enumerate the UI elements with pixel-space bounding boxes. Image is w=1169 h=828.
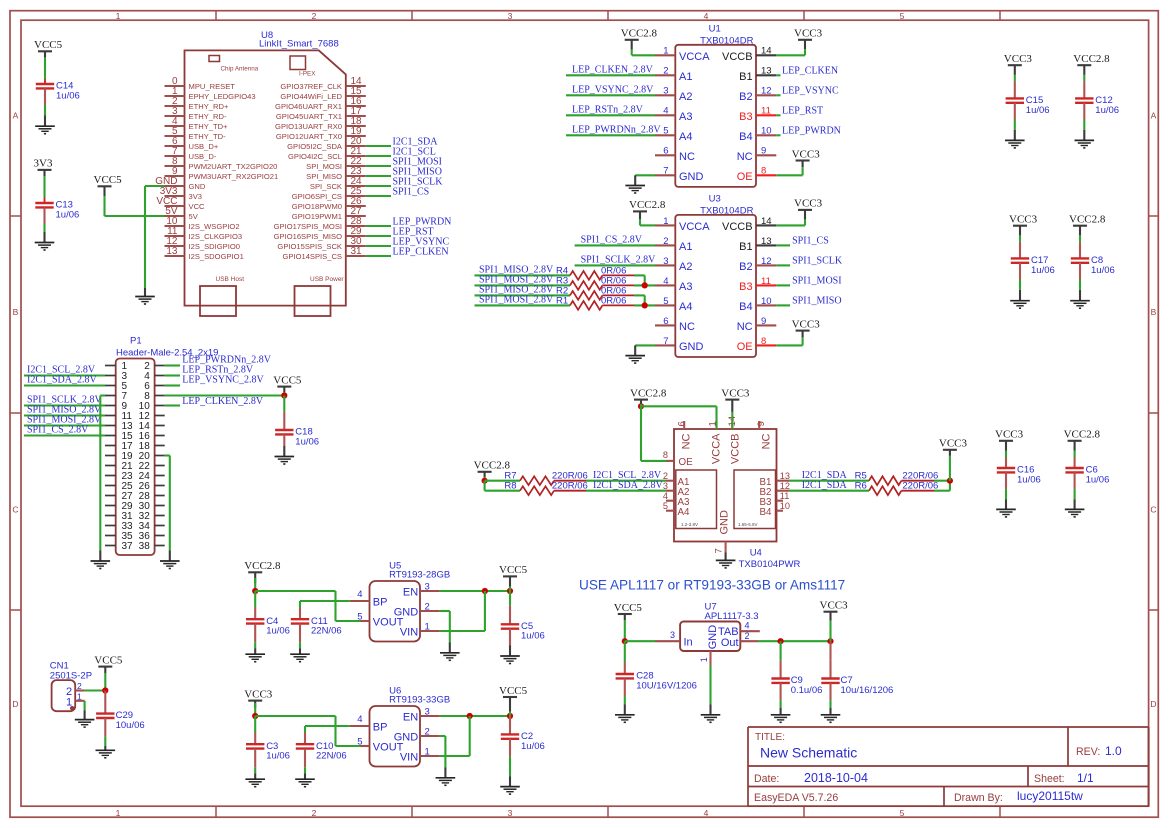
svg-text:VCCA: VCCA [679, 221, 710, 233]
svg-text:VCCB: VCCB [730, 434, 742, 465]
svg-text:GPIO19PWM1: GPIO19PWM1 [292, 212, 342, 221]
svg-text:GPIO45UART_TX1: GPIO45UART_TX1 [276, 112, 342, 121]
svg-text:VCC5: VCC5 [499, 564, 528, 576]
svg-text:B: B [1151, 307, 1157, 317]
svg-text:4: 4 [357, 714, 362, 725]
svg-text:10: 10 [780, 501, 790, 511]
svg-text:13: 13 [761, 66, 772, 77]
svg-text:USB_D-: USB_D- [189, 152, 217, 161]
svg-text:1u/06: 1u/06 [56, 209, 80, 220]
svg-text:2: 2 [425, 601, 430, 612]
svg-text:5: 5 [900, 808, 905, 818]
svg-text:4: 4 [357, 589, 362, 600]
svg-text:4: 4 [704, 11, 709, 21]
svg-text:1.2-3.8V: 1.2-3.8V [681, 522, 698, 527]
svg-text:SPI1_CS: SPI1_CS [393, 187, 430, 198]
svg-text:3: 3 [663, 256, 668, 267]
svg-text:USB Power: USB Power [310, 276, 344, 283]
svg-text:USE APL1117 or RT9193-33GB or: USE APL1117 or RT9193-33GB or Ams1117 [579, 577, 845, 592]
svg-text:6: 6 [663, 146, 668, 157]
svg-text:1u/06: 1u/06 [1017, 474, 1041, 485]
svg-text:13: 13 [761, 236, 772, 247]
svg-text:7: 7 [663, 166, 668, 177]
svg-text:GPIO5I2C_SDA: GPIO5I2C_SDA [287, 142, 343, 151]
svg-text:11: 11 [761, 276, 771, 287]
svg-text:VCC5: VCC5 [273, 374, 302, 386]
svg-text:LEP_RSTn_2.8V: LEP_RSTn_2.8V [572, 105, 644, 116]
svg-text:OE: OE [737, 341, 753, 353]
svg-text:2: 2 [663, 236, 668, 247]
svg-text:U3: U3 [709, 194, 721, 205]
svg-text:VCC3: VCC3 [792, 148, 821, 160]
svg-text:9: 9 [761, 146, 766, 157]
svg-text:10: 10 [761, 296, 772, 307]
svg-text:SPI1_SCLK: SPI1_SCLK [792, 256, 843, 267]
svg-text:9: 9 [756, 421, 767, 426]
svg-text:1: 1 [425, 621, 430, 632]
svg-text:1u/06: 1u/06 [1086, 474, 1110, 485]
svg-text:9: 9 [761, 316, 766, 327]
svg-text:GPIO4I2C_SCL: GPIO4I2C_SCL [288, 152, 342, 161]
svg-text:VCCB: VCCB [722, 51, 753, 63]
svg-text:A2: A2 [679, 261, 692, 273]
svg-text:2: 2 [312, 11, 317, 21]
svg-text:1u/06: 1u/06 [1095, 105, 1119, 116]
svg-text:BP: BP [373, 597, 388, 609]
svg-text:REV:: REV: [1076, 746, 1100, 758]
svg-text:1u/06: 1u/06 [521, 741, 545, 752]
svg-text:1u/06: 1u/06 [56, 90, 80, 101]
svg-text:A3: A3 [679, 111, 692, 123]
svg-text:OE: OE [679, 457, 694, 468]
svg-text:PWM3UART_RX2GPIO21: PWM3UART_RX2GPIO21 [189, 172, 279, 181]
svg-text:NC: NC [679, 321, 695, 333]
svg-text:TXB0104PWR: TXB0104PWR [739, 559, 801, 570]
svg-text:5: 5 [663, 501, 668, 511]
svg-text:4: 4 [704, 808, 709, 818]
svg-text:C: C [1150, 504, 1156, 514]
svg-text:5: 5 [663, 296, 668, 307]
svg-text:VCC: VCC [189, 202, 206, 211]
svg-text:1: 1 [66, 697, 72, 709]
svg-text:14: 14 [761, 216, 772, 227]
svg-text:5: 5 [663, 126, 668, 137]
svg-text:VCC3: VCC3 [792, 318, 821, 330]
svg-text:SPI1_SCLK_2.8V: SPI1_SCLK_2.8V [581, 255, 657, 266]
svg-text:13: 13 [166, 246, 178, 257]
svg-text:I2C1_SDA: I2C1_SDA [802, 480, 848, 491]
svg-text:GND: GND [679, 341, 704, 353]
svg-text:I2S_SDIGPIO0: I2S_SDIGPIO0 [189, 242, 241, 251]
svg-text:VCC2.8: VCC2.8 [244, 560, 281, 572]
svg-text:OE: OE [737, 171, 753, 183]
svg-text:Sheet:: Sheet: [1034, 773, 1065, 785]
svg-text:1: 1 [425, 746, 430, 757]
svg-text:R1: R1 [556, 296, 568, 307]
svg-text:VCC3: VCC3 [794, 28, 823, 40]
svg-text:2: 2 [77, 681, 82, 691]
svg-text:GPIO44WiFi_LED: GPIO44WiFi_LED [280, 92, 342, 101]
svg-text:10: 10 [761, 126, 772, 137]
svg-text:VCC2.8: VCC2.8 [629, 199, 666, 211]
svg-text:USB_D+: USB_D+ [189, 142, 219, 151]
svg-text:1u/06: 1u/06 [266, 751, 290, 762]
svg-text:GND: GND [679, 171, 704, 183]
svg-text:4: 4 [663, 276, 668, 287]
svg-text:GPIO13UART_RX0: GPIO13UART_RX0 [275, 122, 342, 131]
svg-text:GPIO12UART_TX0: GPIO12UART_TX0 [276, 132, 342, 141]
svg-text:LinkIt_Smart_7688: LinkIt_Smart_7688 [259, 39, 339, 50]
svg-text:10u/06: 10u/06 [116, 720, 145, 731]
svg-text:SPI1_CS_2.8V: SPI1_CS_2.8V [581, 235, 643, 246]
svg-text:4: 4 [745, 621, 750, 631]
svg-text:VCC5: VCC5 [614, 602, 643, 614]
svg-text:VCC3: VCC3 [820, 600, 849, 612]
svg-text:APL1117-3.3: APL1117-3.3 [705, 611, 759, 622]
svg-text:3: 3 [670, 630, 675, 640]
svg-text:GND: GND [189, 182, 206, 191]
svg-text:38: 38 [139, 541, 151, 552]
svg-text:2: 2 [663, 66, 668, 77]
svg-text:7: 7 [663, 336, 668, 347]
svg-text:1u/06: 1u/06 [1091, 265, 1115, 276]
svg-text:NC: NC [737, 151, 753, 163]
svg-text:GND: GND [719, 510, 731, 535]
svg-text:LEP_RST: LEP_RST [782, 106, 823, 117]
svg-text:12: 12 [761, 86, 772, 97]
svg-text:11: 11 [761, 106, 771, 117]
svg-text:USB Host: USB Host [216, 276, 245, 283]
svg-text:Date:: Date: [754, 773, 779, 785]
svg-text:I2S_WSGPIO2: I2S_WSGPIO2 [189, 222, 240, 231]
svg-text:1.65-5.5V: 1.65-5.5V [738, 522, 758, 527]
svg-text:4: 4 [663, 491, 668, 501]
svg-text:VCC3: VCC3 [244, 688, 273, 700]
svg-text:I2C1_SDA_2.8V: I2C1_SDA_2.8V [27, 375, 98, 386]
svg-text:B1: B1 [739, 71, 752, 83]
svg-text:14: 14 [761, 46, 772, 57]
svg-text:LEP_CLKEN_2.8V: LEP_CLKEN_2.8V [572, 65, 654, 76]
svg-text:11: 11 [780, 491, 790, 501]
svg-text:6: 6 [663, 316, 668, 327]
svg-text:1u/06: 1u/06 [521, 631, 545, 642]
svg-text:Drawn By:: Drawn By: [954, 792, 1003, 804]
svg-text:GPIO15SPIS_SCK: GPIO15SPIS_SCK [277, 242, 342, 251]
svg-text:5V: 5V [189, 212, 199, 221]
svg-text:1: 1 [663, 216, 668, 227]
svg-text:B2: B2 [739, 261, 752, 273]
svg-text:VCC2.8: VCC2.8 [1069, 214, 1106, 226]
svg-text:1u/06: 1u/06 [295, 436, 319, 447]
svg-text:10u/16/1206: 10u/16/1206 [841, 685, 894, 696]
svg-text:VOUT: VOUT [373, 617, 404, 629]
svg-text:RT9193-28GB: RT9193-28GB [389, 570, 450, 581]
svg-text:31: 31 [351, 246, 363, 257]
svg-text:In: In [684, 637, 693, 649]
svg-text:2: 2 [312, 808, 317, 818]
svg-text:B4: B4 [739, 301, 752, 313]
svg-text:37: 37 [122, 541, 134, 552]
svg-text:D: D [1150, 699, 1156, 709]
svg-text:8: 8 [663, 450, 668, 460]
svg-text:NC: NC [737, 321, 753, 333]
svg-text:A3: A3 [679, 281, 692, 293]
svg-text:SPI1_MOSI_2.8V: SPI1_MOSI_2.8V [479, 295, 554, 306]
svg-text:VCCA: VCCA [679, 51, 710, 63]
svg-text:1: 1 [663, 46, 668, 57]
svg-text:10U/16V/1206: 10U/16V/1206 [636, 680, 697, 691]
svg-text:ETHY_TD-: ETHY_TD- [189, 132, 227, 141]
svg-text:VCC5: VCC5 [94, 654, 123, 666]
svg-text:R8: R8 [504, 481, 516, 492]
svg-text:LEP_CLKEN_2.8V: LEP_CLKEN_2.8V [182, 396, 264, 407]
svg-text:A1: A1 [679, 241, 692, 253]
svg-text:RT9193-33GB: RT9193-33GB [389, 695, 450, 706]
svg-text:1/1: 1/1 [1077, 771, 1094, 785]
svg-text:1: 1 [77, 692, 82, 702]
svg-text:3V3: 3V3 [189, 192, 203, 201]
svg-text:I2C1_SDA_2.8V: I2C1_SDA_2.8V [593, 480, 664, 491]
svg-text:A: A [1151, 110, 1157, 120]
svg-text:VCC5: VCC5 [94, 174, 123, 186]
svg-text:LEP_PWRDNn_2.8V: LEP_PWRDNn_2.8V [572, 125, 661, 136]
svg-text:220R/06: 220R/06 [902, 481, 938, 492]
svg-text:VCC3: VCC3 [1009, 214, 1038, 226]
svg-text:B3: B3 [739, 281, 752, 293]
svg-text:B2: B2 [739, 91, 752, 103]
svg-text:ETHY_RD-: ETHY_RD- [189, 112, 227, 121]
svg-text:NC: NC [681, 433, 693, 449]
svg-text:12: 12 [761, 256, 772, 267]
svg-text:A1: A1 [679, 71, 692, 83]
svg-text:2018-10-04: 2018-10-04 [804, 771, 868, 785]
svg-text:VCC3: VCC3 [1004, 53, 1033, 65]
svg-text:3V3: 3V3 [34, 158, 53, 170]
svg-text:3: 3 [425, 581, 430, 592]
svg-text:VCC2.8: VCC2.8 [1073, 53, 1110, 65]
svg-text:SPI1_CS: SPI1_CS [792, 236, 829, 247]
svg-text:VCCB: VCCB [722, 221, 753, 233]
svg-text:I2S_CLKGPIO3: I2S_CLKGPIO3 [189, 232, 243, 241]
svg-text:2: 2 [663, 471, 668, 481]
svg-text:A4: A4 [679, 301, 692, 313]
svg-text:3: 3 [663, 86, 668, 97]
svg-text:SPI_SCK: SPI_SCK [310, 182, 342, 191]
svg-text:6: 6 [677, 421, 688, 426]
svg-text:220R/06: 220R/06 [552, 481, 588, 492]
svg-text:3: 3 [425, 706, 430, 717]
svg-text:2: 2 [745, 631, 750, 641]
svg-text:13: 13 [780, 471, 790, 481]
svg-text:LEP_CLKEN: LEP_CLKEN [393, 247, 449, 258]
svg-text:3: 3 [508, 808, 513, 818]
svg-text:1u/06: 1u/06 [1031, 265, 1055, 276]
svg-text:New Schematic: New Schematic [760, 745, 857, 761]
svg-text:LEP_VSYNC_2.8V: LEP_VSYNC_2.8V [182, 375, 264, 386]
svg-text:U4: U4 [750, 548, 762, 559]
svg-text:VCC3: VCC3 [794, 198, 823, 210]
svg-text:VCC2.8: VCC2.8 [621, 28, 658, 40]
svg-text:7: 7 [714, 548, 725, 553]
svg-text:SPI_MOSI: SPI_MOSI [306, 162, 342, 171]
svg-text:EPHY_LEDGPIO43: EPHY_LEDGPIO43 [189, 92, 256, 101]
svg-text:I2S_SDOGPIO1: I2S_SDOGPIO1 [189, 252, 244, 261]
svg-text:VCC3: VCC3 [939, 438, 968, 450]
svg-text:VOUT: VOUT [373, 742, 404, 754]
svg-text:VCC3: VCC3 [995, 429, 1024, 441]
svg-text:EasyEDA V5.7.26: EasyEDA V5.7.26 [754, 792, 838, 804]
svg-text:LEP_VSYNC_2.8V: LEP_VSYNC_2.8V [572, 85, 654, 96]
svg-text:GPIO18PWM0: GPIO18PWM0 [292, 202, 342, 211]
svg-text:EN: EN [403, 587, 418, 599]
svg-text:PWM2UART_TX2GPIO20: PWM2UART_TX2GPIO20 [189, 162, 278, 171]
svg-text:MPU_RESET: MPU_RESET [189, 82, 236, 91]
svg-text:1u/06: 1u/06 [1026, 105, 1050, 116]
svg-text:B4: B4 [739, 131, 752, 143]
svg-text:GPIO17SPIS_MOSI: GPIO17SPIS_MOSI [274, 222, 342, 231]
svg-text:Chip Antenna: Chip Antenna [221, 66, 259, 73]
svg-text:3: 3 [663, 481, 668, 491]
svg-text:GPIO37REF_CLK: GPIO37REF_CLK [280, 82, 342, 91]
svg-text:0.1u/06: 0.1u/06 [791, 685, 823, 696]
svg-text:B: B [13, 307, 19, 317]
svg-text:TITLE:: TITLE: [755, 732, 785, 743]
svg-text:B4: B4 [760, 507, 773, 518]
svg-text:EN: EN [403, 712, 418, 724]
svg-text:4: 4 [663, 106, 668, 117]
svg-text:VCC5: VCC5 [499, 685, 528, 697]
svg-text:VCCA: VCCA [710, 433, 722, 464]
svg-text:GPIO14SPIS_CS: GPIO14SPIS_CS [282, 252, 342, 261]
svg-text:1.0: 1.0 [1105, 744, 1122, 758]
svg-text:BP: BP [373, 722, 388, 734]
svg-text:22N/06: 22N/06 [316, 751, 347, 762]
svg-text:22N/06: 22N/06 [311, 626, 342, 637]
svg-text:I-PEX: I-PEX [299, 71, 316, 78]
svg-text:LEP_PWRDN: LEP_PWRDN [782, 126, 841, 137]
svg-text:SPI1_CS_2.8V: SPI1_CS_2.8V [27, 425, 89, 436]
svg-text:GPIO46UART_RX1: GPIO46UART_RX1 [275, 102, 342, 111]
svg-text:VCC5: VCC5 [34, 39, 63, 51]
svg-text:A4: A4 [679, 131, 692, 143]
svg-text:1: 1 [116, 808, 121, 818]
svg-text:Out: Out [721, 637, 739, 649]
svg-text:A4: A4 [678, 507, 691, 518]
svg-text:A2: A2 [679, 91, 692, 103]
svg-text:C: C [12, 504, 18, 514]
svg-text:GPIO6SPI_CS: GPIO6SPI_CS [292, 192, 342, 201]
svg-text:1: 1 [699, 657, 709, 662]
svg-text:ETHY_RD+: ETHY_RD+ [189, 102, 229, 111]
svg-text:TXB0104DR: TXB0104DR [700, 36, 753, 47]
svg-text:TXB0104DR: TXB0104DR [700, 206, 753, 217]
svg-text:1: 1 [116, 11, 121, 21]
svg-text:ETHY_TD+: ETHY_TD+ [189, 122, 229, 131]
svg-text:B1: B1 [739, 241, 752, 253]
svg-text:5: 5 [900, 11, 905, 21]
svg-text:2: 2 [425, 726, 430, 737]
svg-text:P1: P1 [130, 336, 142, 347]
svg-text:D: D [12, 699, 18, 709]
svg-text:A: A [13, 110, 19, 120]
svg-text:SPI1_MOSI: SPI1_MOSI [792, 276, 841, 287]
svg-text:VCC3: VCC3 [721, 387, 750, 399]
svg-text:GPIO16SPIS_MISO: GPIO16SPIS_MISO [274, 232, 342, 241]
svg-text:NC: NC [679, 151, 695, 163]
svg-text:12: 12 [780, 481, 790, 491]
svg-text:NC: NC [760, 433, 772, 449]
svg-text:VCC2.8: VCC2.8 [1064, 429, 1101, 441]
svg-text:VCC2.8: VCC2.8 [630, 387, 667, 399]
svg-text:U1: U1 [709, 24, 721, 35]
svg-text:B3: B3 [739, 111, 752, 123]
svg-text:LEP_VSYNC: LEP_VSYNC [782, 86, 839, 97]
svg-text:lucy20115tw: lucy20115tw [1017, 789, 1083, 803]
svg-text:8: 8 [761, 166, 766, 177]
svg-text:LEP_CLKEN: LEP_CLKEN [782, 66, 838, 77]
svg-text:3: 3 [508, 11, 513, 21]
svg-text:R6: R6 [855, 481, 867, 492]
svg-text:SPI1_MISO: SPI1_MISO [792, 296, 841, 307]
svg-text:8: 8 [761, 336, 766, 347]
svg-text:0R/06: 0R/06 [601, 296, 626, 307]
svg-text:SPI_MISO: SPI_MISO [306, 172, 342, 181]
svg-text:1u/06: 1u/06 [266, 626, 290, 637]
